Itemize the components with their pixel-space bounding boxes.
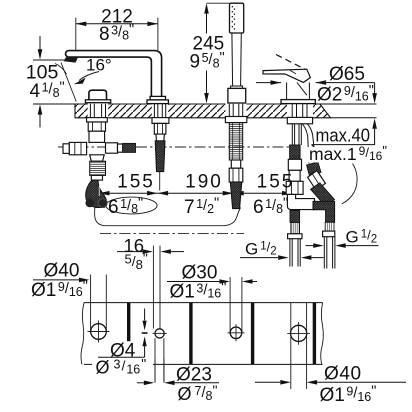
diverter knob on deck (hole 1) [85, 90, 110, 103]
plan hole 1 (O40) [88, 275, 110, 343]
label O30 [167, 263, 257, 303]
lever tilt dashes [276, 55, 306, 70]
lever handle [263, 69, 310, 82]
plan hole 2 (O23) + O4 pin [98, 246, 167, 383]
angle label 16deg with leader arrow [74, 56, 112, 85]
deck holes (white gaps for shanks) [88, 103, 109, 118]
left supply hose [290, 210, 300, 222]
plan hole 4 (O40) [287, 303, 310, 389]
label O40 top-left [31, 261, 90, 302]
wire: horizontal dash-dot centerline through side ports [58, 146, 291, 148]
elbow [287, 194, 314, 209]
svg-text:Ø40: Ø40 [44, 261, 80, 282]
labels 155 190 155 row [108, 172, 294, 219]
label 16 / 5-8 [117, 235, 184, 272]
dimension O65 / O2 9/16 [256, 64, 377, 106]
hose 1 straight down [292, 124, 301, 145]
flexible hose elbow, dark braid [86, 180, 107, 207]
label O40 bottom-right [255, 364, 406, 407]
node: oval around 6 1/8 label [106, 197, 157, 214]
svg-text:Ø23: Ø23 [176, 365, 212, 386]
left break line [81, 303, 84, 365]
plan view: tub deck strip [81, 303, 323, 365]
mixer shank and supply hoses below deck (hole 4) [286, 104, 335, 269]
horizontal braid to right supply [313, 201, 335, 222]
spout shank assembly below deck (hole 2) [152, 104, 169, 191]
dimension 245 / 9 5/8 [190, 3, 230, 103]
right side port [106, 143, 118, 153]
plan hole 3 (O30) [228, 277, 245, 341]
label O4 / O3-16 [92, 341, 164, 383]
G 1/2 labels [240, 227, 379, 260]
svg-text:155: 155 [117, 172, 155, 193]
svg-text:Ø65: Ø65 [329, 64, 365, 85]
hand shower on deck (hole 3) [228, 3, 246, 103]
cartridge body [287, 83, 310, 100]
thick section bars [127, 303, 130, 342]
hand shower shank assembly below deck (hole 3) [225, 104, 246, 209]
O4 pin hole [142, 332, 148, 334]
tapering body [90, 155, 105, 161]
dimension 212 [76, 6, 158, 50]
hose 2 curving right [302, 124, 315, 164]
single-lever mixer on deck (hole 4) [263, 55, 315, 104]
16-degree reference line [61, 63, 76, 102]
svg-text:190: 190 [185, 172, 223, 193]
left side port with hex cap [69, 142, 86, 154]
wire: dash-dot centerline of hose loop [100, 233, 244, 235]
svg-text:max.40: max.40 [316, 124, 371, 145]
dimension 105 / 4 1/8 [26, 36, 71, 128]
svg-text:Ø40: Ø40 [324, 364, 362, 385]
spout base plates on deck [150, 96, 165, 100]
right supply hose [325, 222, 334, 231]
label O23 / O7-8 [137, 365, 219, 405]
svg-text:155: 155 [257, 172, 295, 193]
aerator at spout tip [64, 57, 78, 63]
spout (side view) [61, 51, 168, 104]
dimension 155/190/155 line (drawn early so braids overlap) [99, 191, 293, 196]
deck cross-section with hatching [33, 103, 377, 118]
dimension max.40 / max.1 9/16 [307, 118, 388, 203]
wire: hose loop outline below deck [95, 202, 241, 226]
right break line [321, 303, 324, 365]
escutcheon base [281, 100, 315, 104]
diverter valve assembly below deck (hole 1) [63, 104, 136, 208]
